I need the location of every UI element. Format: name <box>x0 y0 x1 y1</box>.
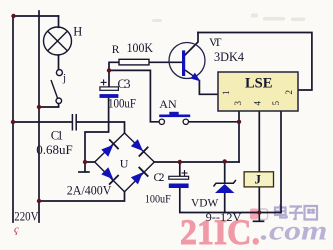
wire C2 bottom + bottom bus <box>180 188 281 213</box>
bridge rectifier U diamond <box>95 133 155 192</box>
char zi <box>289 207 303 220</box>
wire R right to base <box>149 61 183 63</box>
wire C1 left segment <box>13 121 72 123</box>
pushbutton AN <box>159 112 190 125</box>
node top-left <box>11 14 15 18</box>
wire LSE pin3 down <box>238 111 240 162</box>
char dian <box>275 205 287 218</box>
svg-text:R: R <box>112 44 120 56</box>
svg-text:9--12V: 9--12V <box>206 212 243 224</box>
svg-text:LSE: LSE <box>245 76 273 92</box>
svg-text:ç: ç <box>14 224 19 236</box>
resistor R 100K <box>119 59 149 65</box>
wire node to C3 top <box>108 70 110 87</box>
svg-text:5: 5 <box>271 100 281 105</box>
wire emitter down to LSE pin1 <box>199 81 218 95</box>
svg-text:2A/400V: 2A/400V <box>67 182 112 197</box>
wire zener top lead <box>224 162 226 184</box>
node bridge-left <box>83 160 87 164</box>
wire C2 top lead <box>179 162 181 176</box>
wire lamp bottom lead <box>58 55 60 70</box>
ground stub below bridge-left node <box>84 162 86 172</box>
svg-text:1: 1 <box>221 91 231 96</box>
svg-text:2: 2 <box>284 90 294 95</box>
wire collector to top <box>185 33 198 56</box>
svg-text:220V: 220V <box>14 208 39 223</box>
svg-text:VDW: VDW <box>191 196 219 210</box>
lamp H <box>44 27 72 55</box>
char wang <box>305 206 318 220</box>
svg-text:C2: C2 <box>154 170 165 184</box>
node rail-bridgebottom <box>37 199 41 203</box>
node AN-pin3 <box>237 120 241 124</box>
bridge diode lower-right <box>130 167 149 186</box>
node switch-rail <box>37 105 41 109</box>
svg-text:AN: AN <box>159 97 177 111</box>
wire neutral rail x39 <box>38 11 40 222</box>
wire left rail <box>12 16 14 222</box>
wire R left lead <box>109 62 119 70</box>
faint ghost marks <box>152 14 305 23</box>
bridge diode upper-left <box>100 139 119 158</box>
wire LSE pin5 down <box>280 111 282 213</box>
svg-text:j: j <box>62 72 66 84</box>
svg-text:3: 3 <box>233 100 243 105</box>
wire LSE pin4 down through J <box>258 111 260 221</box>
svg-text:C3: C3 <box>118 77 131 91</box>
node R/C3 <box>107 68 111 72</box>
svg-text:U: U <box>120 157 129 171</box>
svg-text:4: 4 <box>253 100 263 105</box>
node C1-left <box>11 120 15 124</box>
svg-text:J: J <box>254 172 261 187</box>
svg-text:100uF: 100uF <box>108 97 136 111</box>
wire top-left horizontal <box>13 15 59 17</box>
switch j <box>51 70 62 104</box>
ground bar <box>79 171 89 173</box>
zener diode VDW <box>214 180 236 193</box>
svg-text:100uF: 100uF <box>145 193 171 205</box>
wire top rail to right <box>198 33 312 91</box>
watermark 21IC.com dianziwang <box>180 205 328 250</box>
wire zener bottom lead <box>224 193 226 213</box>
wire node to AN left <box>109 70 159 121</box>
svg-text:3DK4: 3DK4 <box>214 50 245 64</box>
node pin4-bottombus <box>257 210 261 214</box>
capacitor C3 <box>100 79 119 98</box>
capacitor C1 <box>72 114 76 131</box>
wire lamp top lead <box>58 16 60 27</box>
svg-text:100K: 100K <box>127 40 154 55</box>
svg-text:0.68uF: 0.68uF <box>36 143 72 157</box>
wire AN right to pin3 <box>189 121 239 123</box>
svg-text:.com: .com <box>261 216 328 246</box>
bridge diode upper-right <box>130 138 149 157</box>
relay J <box>244 172 273 187</box>
transistor VT <box>169 43 205 82</box>
wire C1 right segment to bridge top <box>77 122 125 133</box>
capacitor C2 <box>169 170 189 188</box>
wire bus bridge-right to pin3 <box>154 161 239 163</box>
wire switch bottom to rail <box>39 104 59 107</box>
bridge diode lower-left <box>100 166 119 185</box>
IC LSE <box>218 72 298 111</box>
wire bridge bottom to neutral rail <box>39 192 125 201</box>
wire C3 bottom to bridge left <box>85 98 109 162</box>
terminal bar pin4 <box>254 220 264 222</box>
svg-text:H: H <box>73 25 82 39</box>
svg-text:VT: VT <box>209 35 222 49</box>
node zener-bus <box>223 159 227 163</box>
node C2-bus <box>178 160 182 164</box>
svg-text:C1: C1 <box>51 128 64 142</box>
